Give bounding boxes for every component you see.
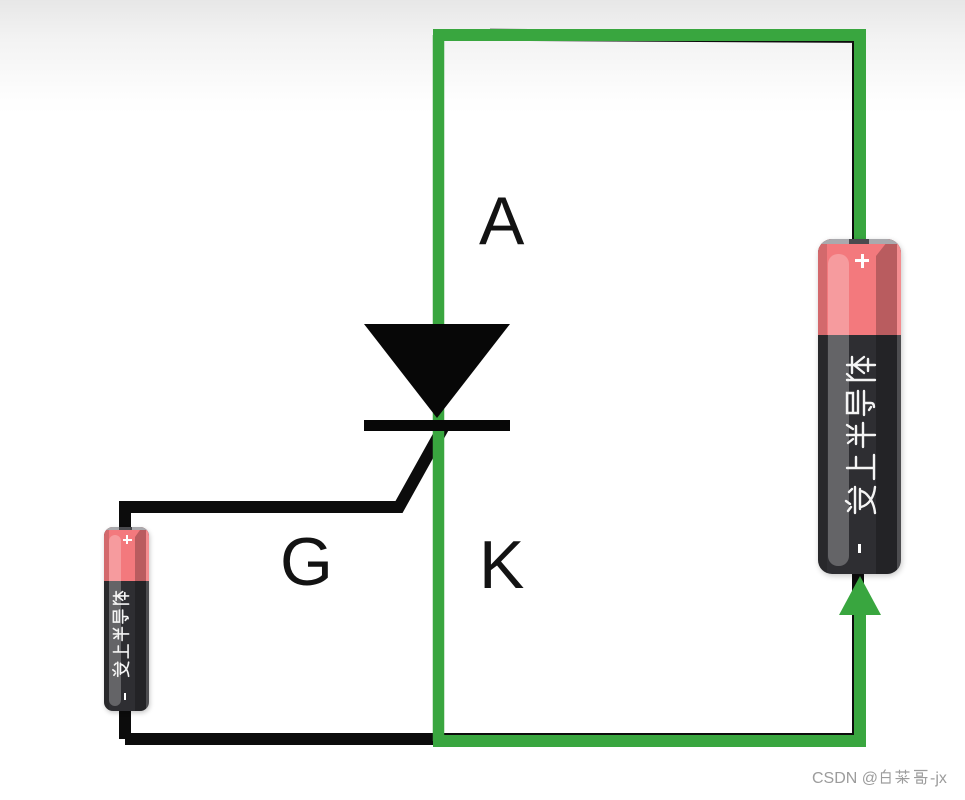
wire: green right upper vertical to battery + <box>854 29 866 245</box>
battery B2 minus sign (rotated dash) <box>124 693 126 700</box>
char ban <box>113 627 128 640</box>
char ai <box>113 662 129 676</box>
battery B1 minus sign (rotated dash) <box>858 544 861 553</box>
battery B2 top face strip <box>104 527 149 530</box>
battery B2 right dark band (with top bevel) <box>135 530 146 711</box>
battery B1 (right, main supply) <box>818 239 901 574</box>
char shang <box>847 455 874 479</box>
char ban <box>847 423 875 447</box>
thyristor SCR: cathode bar <box>364 420 510 431</box>
battery B2 plus sign <box>123 539 132 541</box>
wire: green right lower vertical <box>854 610 866 747</box>
battery B1 top face strip <box>818 239 901 244</box>
char dao <box>113 610 128 623</box>
battery B2 left edge shade <box>104 530 109 711</box>
node A label <box>479 187 524 255</box>
battery B2 (left, gate trigger) <box>104 527 149 711</box>
thyristor SCR: triangle (anode to cathode) <box>364 324 510 418</box>
battery B1 right dark band (with top bevel) <box>876 244 897 574</box>
battery B1 plus sign <box>855 259 869 262</box>
char ti <box>113 592 128 604</box>
node G label <box>280 528 333 596</box>
char ai <box>846 487 875 513</box>
battery B1 right rim light <box>897 244 901 574</box>
char dao <box>847 391 874 415</box>
wire: black top loop (anode to battery +) <box>490 35 858 245</box>
wire: black left bottom vertical (small battery minus lead) <box>119 700 131 739</box>
battery B1 highlight stripe <box>828 254 849 566</box>
node K label <box>479 531 524 599</box>
battery B2 pink cap section <box>104 527 149 581</box>
watermark CSDN @baicaige-jx <box>812 769 947 788</box>
char shang <box>113 645 128 658</box>
wire: green top horizontal <box>433 29 860 41</box>
battery B1 pink cap section <box>818 239 901 335</box>
wire: green bottom horizontal <box>433 735 866 747</box>
battery B2 right rim light <box>146 530 149 711</box>
battery B2 terminal cap <box>119 527 132 530</box>
current direction arrow (green, pointing up into battery -) <box>839 576 881 615</box>
battery B1 terminal cap <box>849 239 869 244</box>
wire: gate lead diagonal and horizontal to small battery <box>125 428 443 535</box>
battery B1 left edge shade <box>818 244 827 574</box>
wire: black right lower + bottom horizontal <box>125 570 858 739</box>
battery B1 label text (rotated) <box>844 355 878 517</box>
battery B2 label text (rotated) <box>112 591 131 679</box>
char ti <box>847 357 875 380</box>
wire: green anode vertical (A wire through thyristor) <box>433 35 445 741</box>
battery B2 highlight stripe <box>109 535 121 706</box>
